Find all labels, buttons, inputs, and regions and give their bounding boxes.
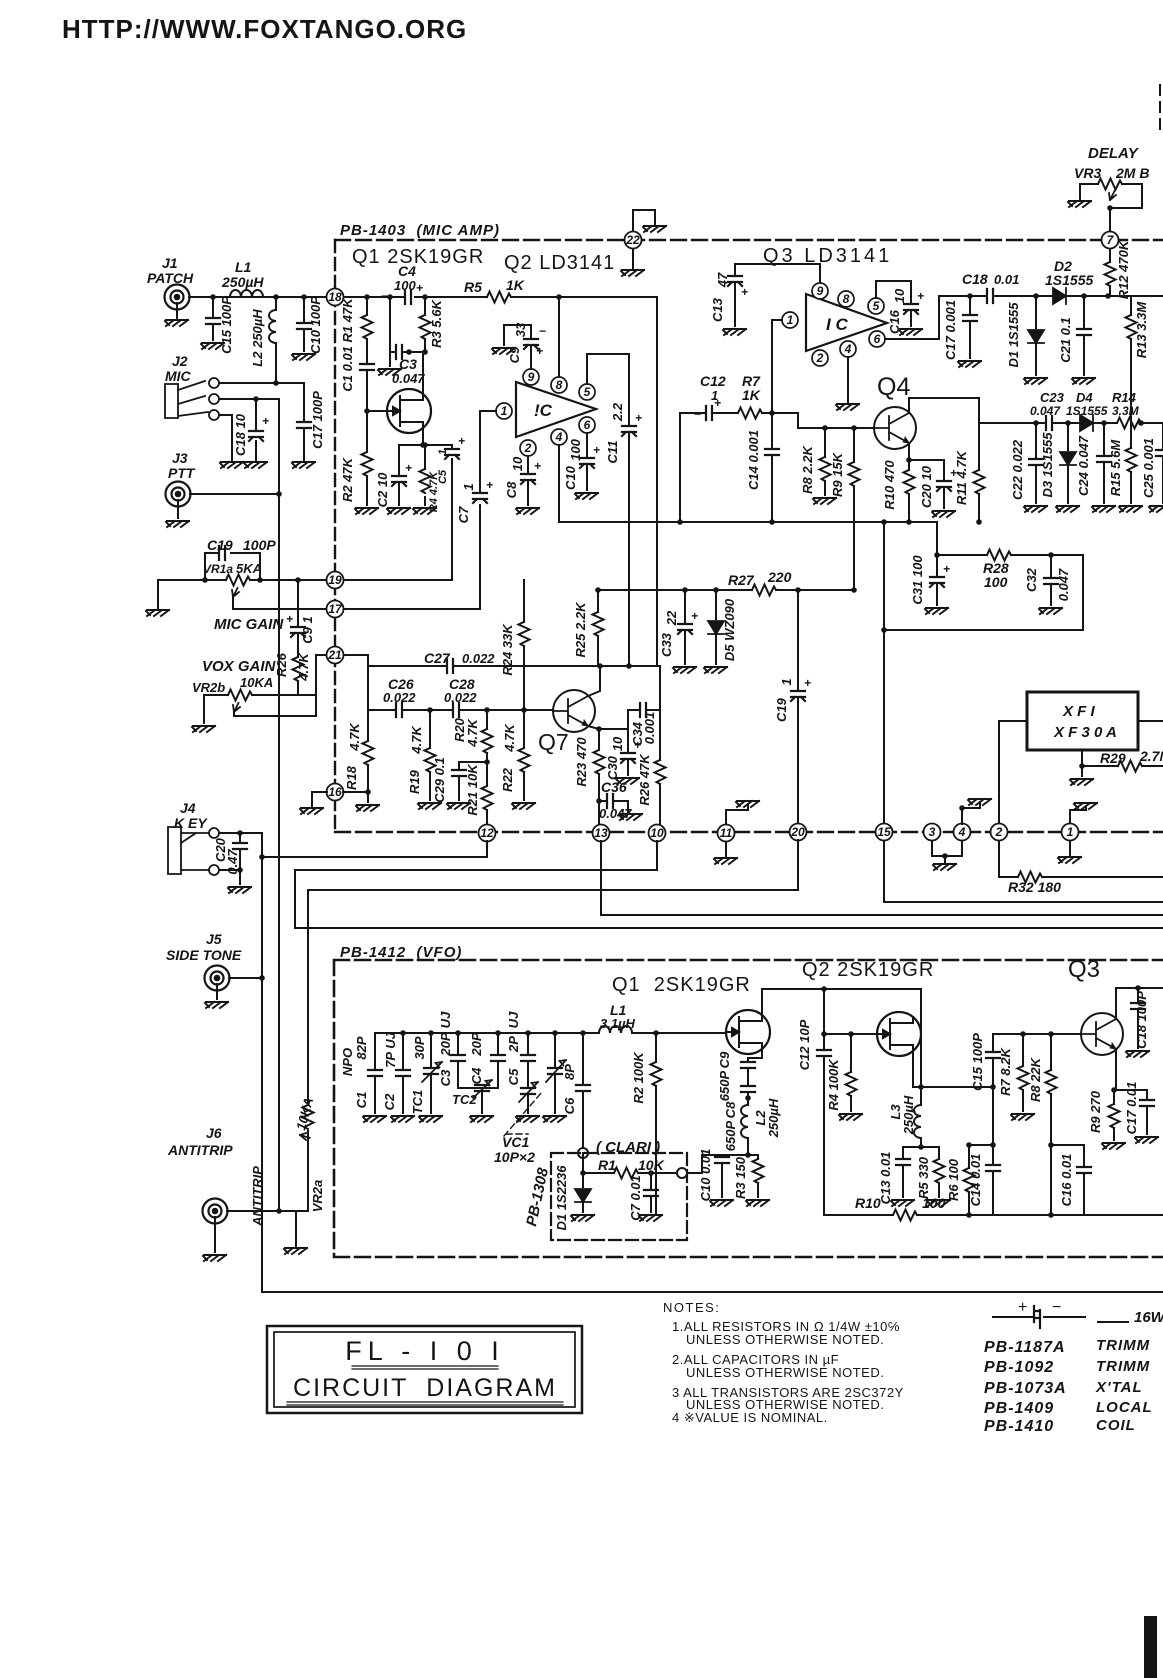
- ground: [292, 462, 315, 468]
- svg-text:−: −: [1052, 1299, 1061, 1316]
- ground C9: [492, 348, 515, 354]
- crystal filter XF1 XF30A box: [1027, 692, 1138, 750]
- svg-text:R2 47K: R2 47K: [340, 456, 355, 502]
- svg-text:R4 100K: R4 100K: [826, 1058, 841, 1111]
- svg-text:250µH: 250µH: [221, 274, 264, 290]
- node open circle to clari: [578, 1148, 588, 1158]
- svg-text:21: 21: [327, 648, 342, 662]
- resistor R9 15K: [853, 428, 855, 590]
- svg-text:16: 16: [328, 785, 342, 799]
- ground VR1a left: [157, 580, 159, 608]
- svg-text:4.7K: 4.7K: [296, 652, 311, 682]
- svg-text:4.7K: 4.7K: [465, 718, 480, 748]
- ground: [1072, 378, 1095, 384]
- ground: [933, 864, 956, 870]
- wire Q7 collector to C27 node: [588, 666, 600, 696]
- svg-text:4 ※VALUE IS NOMINAL.: 4 ※VALUE IS NOMINAL.: [672, 1410, 828, 1425]
- ground at terminal 16: [312, 792, 366, 806]
- svg-text:C17 100P: C17 100P: [310, 391, 325, 449]
- PB-1403 dashed border left: [334, 240, 336, 832]
- ground: [292, 354, 315, 360]
- svg-text:J5: J5: [206, 931, 222, 947]
- ground: [1092, 506, 1115, 512]
- wire J3 PTT rail down to J6: [278, 494, 280, 1211]
- svg-text:Q3: Q3: [1068, 956, 1100, 983]
- capacitor C14 0.01 (VFO): [992, 1087, 994, 1215]
- svg-text:R9 15K: R9 15K: [830, 451, 845, 497]
- svg-text:+: +: [534, 459, 541, 473]
- svg-text:C9: C9: [717, 1051, 732, 1068]
- svg-text:8: 8: [556, 378, 563, 392]
- Q3 collector wire and capacitor C18 100P: [1116, 988, 1163, 1048]
- terminal 13: [593, 825, 610, 842]
- ground: [284, 1248, 307, 1254]
- ground: [201, 343, 224, 349]
- wire terminal 15 down and right: [884, 841, 1163, 902]
- svg-text:5KA: 5KA: [236, 561, 262, 576]
- ground: [621, 270, 644, 276]
- trimmer TC1 30P: [430, 1033, 432, 1113]
- resistor R13 3.3M: [1110, 296, 1163, 423]
- svg-text:CIRCUIT DIAGRAM: CIRCUIT DIAGRAM: [293, 1374, 557, 1402]
- pin 2: [812, 350, 828, 366]
- wire supply column to terminal 10 with resistor R26 47K: [657, 297, 660, 824]
- svg-text:R13 3.3M: R13 3.3M: [1134, 301, 1149, 359]
- svg-text:Q1 2SK19GR: Q1 2SK19GR: [612, 974, 751, 996]
- node open circle right of clari: [655, 1172, 676, 1174]
- VFO main wire: [375, 1032, 726, 1034]
- resistor R26 4.7K: [293, 657, 304, 681]
- svg-text:FL - I 0 I: FL - I 0 I: [345, 1336, 505, 1366]
- svg-text:C2 10: C2 10: [375, 472, 390, 507]
- svg-text:+: +: [714, 396, 721, 410]
- svg-text:R2 100K: R2 100K: [631, 1051, 646, 1104]
- inductor L3 250uH (VFO vertical): [914, 1105, 921, 1138]
- ground: [616, 778, 639, 784]
- ground: [1119, 506, 1142, 512]
- ground: [1058, 857, 1081, 863]
- wire XF1 bottom pin / ground / resistor R29 2.7M: [1081, 750, 1083, 776]
- ground VR3: [1068, 201, 1091, 207]
- svg-text:+: +: [262, 414, 269, 428]
- capacitor C20 0.47: [219, 833, 262, 884]
- terminal 18: [327, 289, 344, 306]
- svg-text:3.3M: 3.3M: [1112, 404, 1140, 418]
- wire Q4 collector: [909, 398, 979, 423]
- svg-text:PB-1403 (MIC AMP): PB-1403 (MIC AMP): [340, 222, 500, 239]
- ground VR2b: [192, 726, 215, 732]
- svg-text:C13: C13: [710, 297, 725, 322]
- svg-text:R26 47K: R26 47K: [637, 753, 652, 806]
- svg-text:C31 100: C31 100: [910, 555, 925, 605]
- svg-text:0.022: 0.022: [444, 690, 477, 705]
- svg-text:R21 10K: R21 10K: [465, 763, 480, 816]
- svg-text:9: 9: [528, 370, 535, 384]
- wire VR2b wiper to terminal 21: [234, 655, 327, 716]
- svg-text:20: 20: [790, 825, 805, 839]
- pin 5: [868, 298, 884, 314]
- svg-text:COIL: COIL: [1096, 1417, 1136, 1434]
- svg-text:R3 5.6K: R3 5.6K: [429, 299, 444, 348]
- svg-text:R12 470K: R12 470K: [1116, 239, 1131, 299]
- wire Q4 base row: [798, 413, 874, 428]
- svg-text:6: 6: [874, 332, 881, 346]
- svg-text:2M B: 2M B: [1115, 165, 1149, 181]
- svg-text:L2 250µH: L2 250µH: [250, 309, 265, 367]
- resistor R25 2.2K: [597, 590, 599, 666]
- wire source Q1 down and to C5/C2: [344, 429, 452, 580]
- ground: [836, 404, 859, 410]
- svg-text:1K: 1K: [506, 277, 525, 293]
- svg-text:C10 0.01: C10 0.01: [698, 1149, 713, 1202]
- svg-text:C16 0.01: C16 0.01: [1059, 1154, 1074, 1207]
- svg-text:C3: C3: [438, 1069, 453, 1086]
- svg-text:C10 100P: C10 100P: [308, 296, 323, 354]
- ground: [447, 803, 470, 809]
- svg-text:Q2 2SK19GR: Q2 2SK19GR: [802, 959, 934, 981]
- capacitor C6 8P: [582, 1033, 584, 1148]
- svg-text:C18 100P: C18 100P: [1134, 991, 1149, 1049]
- ground: [1135, 1137, 1158, 1143]
- svg-text:13: 13: [594, 826, 608, 840]
- wire pin4 down to bus: [558, 445, 560, 522]
- svg-text:−: −: [539, 324, 546, 338]
- svg-text:Q2 LD3141: Q2 LD3141: [504, 252, 615, 274]
- svg-text:SIDE TONE: SIDE TONE: [166, 947, 242, 963]
- wire pin5 loop to C11 column: [587, 354, 629, 666]
- svg-text:C15 100P: C15 100P: [219, 296, 234, 354]
- resistor R10 470: [904, 470, 915, 494]
- svg-text:R22: R22: [500, 767, 515, 792]
- PB-1403 dashed border bottom: [335, 831, 1163, 833]
- svg-text:PATCH: PATCH: [147, 270, 194, 286]
- capacitor C11 2.2 electrolytic: [622, 426, 636, 436]
- ground: [1024, 506, 1047, 512]
- svg-text:D5 WZ090: D5 WZ090: [722, 598, 737, 661]
- pin 4: [551, 429, 567, 445]
- transistor Q7: [553, 690, 595, 732]
- capacitor C17 100P: [297, 422, 311, 428]
- svg-text:TRIMM: TRIMM: [1096, 1337, 1150, 1354]
- svg-text:4: 4: [555, 430, 563, 444]
- svg-text:C22 0.022: C22 0.022: [1010, 439, 1025, 500]
- wire terminal 10 route: [295, 841, 1163, 928]
- wire C12 left to pin4 bus: [679, 413, 681, 522]
- svg-text:R10: R10: [855, 1195, 881, 1211]
- svg-text:C36: C36: [601, 779, 627, 795]
- svg-text:7P UJ: 7P UJ: [383, 1031, 398, 1067]
- svg-text:X'TAL: X'TAL: [1095, 1379, 1143, 1396]
- pin 6: [869, 331, 885, 347]
- svg-text:C29 0.1: C29 0.1: [432, 757, 447, 803]
- svg-text:ANTITRIP: ANTITRIP: [167, 1142, 233, 1158]
- resistor R18 4.7K: [344, 710, 368, 802]
- ground: [899, 329, 922, 335]
- terminal 16: [327, 784, 344, 801]
- ground: [512, 803, 535, 809]
- svg-text:C18 10: C18 10: [233, 413, 248, 456]
- svg-text:C1 0.01 R1 47K: C1 0.01 R1 47K: [340, 297, 355, 392]
- Q1 VFO source chain C9 650P: [748, 1049, 762, 1086]
- PB-1412 VFO dashed border: [334, 960, 1163, 1257]
- PB-1403 mic amp board dashed border top: [335, 239, 1163, 241]
- ground: [1070, 779, 1093, 785]
- svg-text:PB-1409: PB-1409: [984, 1400, 1054, 1417]
- wire J5 to left rail: [229, 977, 262, 979]
- wire pin1 to C7 column / terminal 17 line: [344, 411, 496, 609]
- svg-text:20P: 20P: [469, 1032, 484, 1056]
- resistor R9 270 (VFO): [1109, 1104, 1120, 1128]
- svg-text:C25 0.001: C25 0.001: [1141, 438, 1156, 498]
- wire mic contact2 to C18 and PTT line: [219, 399, 279, 494]
- ground above terminal 22: [633, 210, 655, 231]
- ground: [925, 608, 948, 614]
- VC1 dashed gang outline and label: [504, 1092, 542, 1136]
- svg-text:2.7M: 2.7M: [1139, 748, 1163, 764]
- capacitor C34 0.001: [628, 710, 660, 729]
- svg-text:UNLESS OTHERWISE NOTED.: UNLESS OTHERWISE NOTED.: [686, 1365, 884, 1380]
- svg-text:J3: J3: [172, 450, 188, 466]
- svg-text:1S1555: 1S1555: [1045, 272, 1093, 288]
- svg-text:C5: C5: [506, 1068, 521, 1085]
- svg-text:VR2a: VR2a: [310, 1180, 325, 1213]
- svg-text:19: 19: [328, 573, 342, 587]
- svg-text:Q1 2SK19GR: Q1 2SK19GR: [352, 246, 484, 268]
- svg-text:D1 1S1555: D1 1S1555: [1006, 302, 1021, 368]
- svg-text:( CLARI ): ( CLARI ): [596, 1139, 660, 1156]
- svg-text:R5: R5: [464, 279, 482, 295]
- svg-text:TRIMM: TRIMM: [1096, 1358, 1150, 1375]
- svg-text:MIC GAIN: MIC GAIN: [214, 616, 284, 633]
- svg-text:X F I: X F I: [1062, 703, 1096, 720]
- capacitor C7 1 electrolytic: [473, 493, 487, 503]
- svg-text:R9 270: R9 270: [1088, 1090, 1103, 1133]
- svg-text:R11 4.7K: R11 4.7K: [954, 449, 969, 505]
- svg-text:−: −: [381, 289, 388, 303]
- svg-text:R6 100: R6 100: [946, 1158, 961, 1201]
- svg-text:R32 180: R32 180: [1008, 879, 1061, 895]
- ground C3: [378, 369, 401, 375]
- diode D1 1S2236: [583, 1158, 655, 1212]
- terminal 22: [625, 232, 642, 249]
- svg-text:+: +: [635, 411, 642, 425]
- capacitor C1 82P: [374, 1033, 376, 1113]
- terminal 20: [790, 824, 807, 841]
- svg-text:2: 2: [995, 825, 1003, 839]
- wire terminal 13 down and right: [601, 841, 1163, 915]
- resistor R5 330 (VFO): [938, 1147, 940, 1197]
- svg-text:HTTP://WWW.FOXTANGO.ORG: HTTP://WWW.FOXTANGO.ORG: [62, 14, 467, 44]
- svg-text:0.022: 0.022: [462, 651, 495, 666]
- svg-text:PB-1092: PB-1092: [984, 1359, 1054, 1376]
- resistor R8 22K (VFO): [1050, 1034, 1052, 1215]
- ground: [1074, 803, 1097, 809]
- resistor R3 150 (VFO): [757, 1155, 759, 1197]
- title box FL-101 CIRCUIT DIAGRAM: [267, 1326, 582, 1413]
- svg-text:4: 4: [958, 825, 966, 839]
- svg-text:C15 100P: C15 100P: [970, 1033, 985, 1091]
- ground: [300, 808, 323, 814]
- Q2 VFO source to L3 chain: [913, 1051, 993, 1105]
- potentiometer VR2a 10KA (antitrip): [227, 890, 308, 1211]
- svg-text:0.01: 0.01: [994, 272, 1019, 287]
- pin 5: [579, 384, 595, 400]
- resistor R4 100K (VFO): [850, 1034, 852, 1111]
- wires and grounds at terminals 3 and 4: [932, 802, 980, 862]
- svg-text:100: 100: [984, 574, 1008, 590]
- trimmer TC2: [475, 1085, 489, 1091]
- ground below terminal 22: [632, 249, 634, 268]
- capacitor C19 1 electrolytic on terminal 20 column: [797, 590, 799, 823]
- svg-text:10KA: 10KA: [240, 675, 273, 690]
- capacitor C8 10 electrolytic from pin 2: [527, 456, 529, 505]
- svg-text:4.7K: 4.7K: [502, 723, 517, 753]
- svg-text:10P×2: 10P×2: [494, 1149, 535, 1165]
- transistor Q3 (VFO BJT): [1081, 1013, 1123, 1055]
- svg-text:250µH: 250µH: [901, 1095, 916, 1135]
- svg-text:I C: I C: [826, 315, 848, 334]
- svg-text:C8: C8: [504, 481, 519, 498]
- pin 8: [838, 291, 854, 307]
- transistor Q1 FET (mic amp): [387, 389, 431, 433]
- svg-text:+: +: [405, 461, 412, 475]
- svg-text:R15 5.6M: R15 5.6M: [1108, 439, 1123, 497]
- wire R28 feed: [936, 522, 938, 555]
- svg-text:C12: C12: [700, 373, 726, 389]
- svg-text:C7: C7: [456, 506, 471, 523]
- svg-text:10: 10: [510, 456, 525, 471]
- pin 2: [520, 440, 536, 456]
- wire mic contact1 to L2 bottom / C17: [219, 383, 304, 420]
- resistor R8 2.2K: [824, 428, 826, 495]
- svg-text:VOX GAIN: VOX GAIN: [202, 658, 277, 675]
- svg-text:R8 22K: R8 22K: [1028, 1056, 1043, 1102]
- svg-text:C2: C2: [382, 1093, 397, 1110]
- svg-text:C11: C11: [605, 441, 620, 464]
- svg-text:4.7K: 4.7K: [409, 725, 424, 755]
- capacitor C15 100P (VFO): [921, 1034, 1080, 1087]
- svg-text:D1 1S2236: D1 1S2236: [554, 1165, 569, 1231]
- svg-text:12: 12: [480, 826, 494, 840]
- capacitor C22 0.022: [1035, 423, 1037, 503]
- ground: [1102, 1143, 1125, 1149]
- ground: [1056, 506, 1079, 512]
- svg-text:8: 8: [843, 292, 850, 306]
- capacitor C20 10 electrolytic: [943, 460, 945, 508]
- capacitor C3 20P UJ: [458, 1033, 482, 1088]
- ground: [710, 1200, 733, 1206]
- svg-text:10: 10: [892, 288, 907, 303]
- wire vertical to terminal 15: [883, 522, 885, 832]
- ground J1: [176, 303, 178, 318]
- ground: [419, 1116, 442, 1122]
- capacitor C13 0.01 (VFO): [903, 1147, 939, 1197]
- ground: [643, 226, 666, 232]
- svg-text:1: 1: [779, 678, 794, 685]
- svg-text:PTT: PTT: [168, 465, 196, 481]
- svg-text:0.001: 0.001: [642, 712, 657, 745]
- svg-text:C14 0.01: C14 0.01: [968, 1154, 983, 1207]
- wire J4 rail down: [261, 833, 263, 1292]
- svg-text:R24 33K: R24 33K: [500, 623, 515, 676]
- svg-text:C3: C3: [399, 356, 417, 372]
- svg-text:C32: C32: [1024, 567, 1039, 592]
- svg-text:R3 150: R3 150: [733, 1156, 748, 1199]
- svg-text:R18: R18: [344, 765, 359, 790]
- svg-text:1: 1: [437, 449, 449, 455]
- svg-text:+: +: [741, 285, 748, 299]
- svg-text:10: 10: [610, 736, 625, 751]
- resistor R24 33K: [523, 580, 525, 710]
- wire XF1 right pin: [1138, 720, 1163, 722]
- capacitor C16 10 electrolytic on pin5 loop: [876, 281, 911, 326]
- capacitor C30 10 electrolytic: [621, 753, 635, 763]
- svg-text:1: 1: [1067, 825, 1074, 839]
- capacitor C3 0.047 row: [390, 297, 425, 366]
- svg-text:R14: R14: [1112, 390, 1137, 405]
- wire Q4 emitter to R10 and C20: [909, 443, 944, 522]
- ground: [418, 803, 441, 809]
- svg-text:C8: C8: [723, 1101, 738, 1118]
- wire terminal 21 to VOX amp row: [344, 655, 368, 710]
- svg-text:C17 0.01: C17 0.01: [1124, 1082, 1139, 1135]
- capacitor C24 0.047: [1103, 423, 1105, 503]
- svg-text:C7 0.01: C7 0.01: [628, 1175, 643, 1221]
- svg-text:VR2b: VR2b: [192, 680, 225, 695]
- svg-text:LOCAL: LOCAL: [1096, 1399, 1153, 1416]
- ground: [571, 1215, 594, 1221]
- svg-text:5: 5: [873, 299, 880, 313]
- svg-text:+: +: [943, 562, 950, 576]
- ground: [205, 1002, 228, 1008]
- svg-text:C12 10P: C12 10P: [797, 1019, 812, 1070]
- svg-text:J2: J2: [172, 353, 188, 369]
- resistor R15 5.6M: [1130, 423, 1132, 503]
- svg-text:C23: C23: [1040, 390, 1065, 405]
- svg-text:R8 2.2K: R8 2.2K: [800, 445, 815, 494]
- resistor R2 47K: [362, 452, 373, 476]
- resistor R7 8.2K (VFO): [1022, 1034, 1024, 1111]
- svg-text:C4: C4: [398, 263, 416, 279]
- svg-text:K EY: K EY: [174, 815, 208, 831]
- terminal 2: [991, 824, 1008, 841]
- svg-text:!C: !C: [534, 401, 553, 420]
- resistor R11 4.7K: [978, 423, 980, 522]
- capacitor C32 0.047: [1050, 555, 1052, 605]
- wire R28 row corner down and y=630 wire: [884, 555, 1083, 630]
- resistor R6 100 (VFO): [969, 1145, 993, 1215]
- svg-text:22: 22: [625, 233, 640, 247]
- svg-text:16WV: 16WV: [1134, 1309, 1163, 1326]
- ground: [932, 511, 955, 517]
- svg-text:17: 17: [328, 602, 343, 616]
- svg-text:J4: J4: [180, 800, 196, 816]
- capacitor C14 0.001: [771, 413, 773, 522]
- transistor Q2 FET (VFO): [877, 1012, 921, 1056]
- pin 1: [782, 312, 798, 328]
- capacitor C21 0.1: [1083, 296, 1085, 375]
- svg-text:NPO: NPO: [340, 1048, 355, 1076]
- svg-text:1: 1: [787, 313, 794, 327]
- svg-text:1K: 1K: [742, 387, 761, 403]
- ground: [516, 508, 539, 514]
- ground: [356, 805, 379, 811]
- svg-text:C6: C6: [562, 1097, 577, 1114]
- wire Q7 base: [524, 709, 553, 711]
- terminal 4: [954, 824, 971, 841]
- ground: [1149, 506, 1163, 512]
- terminal 1 with grounds: [1062, 824, 1079, 841]
